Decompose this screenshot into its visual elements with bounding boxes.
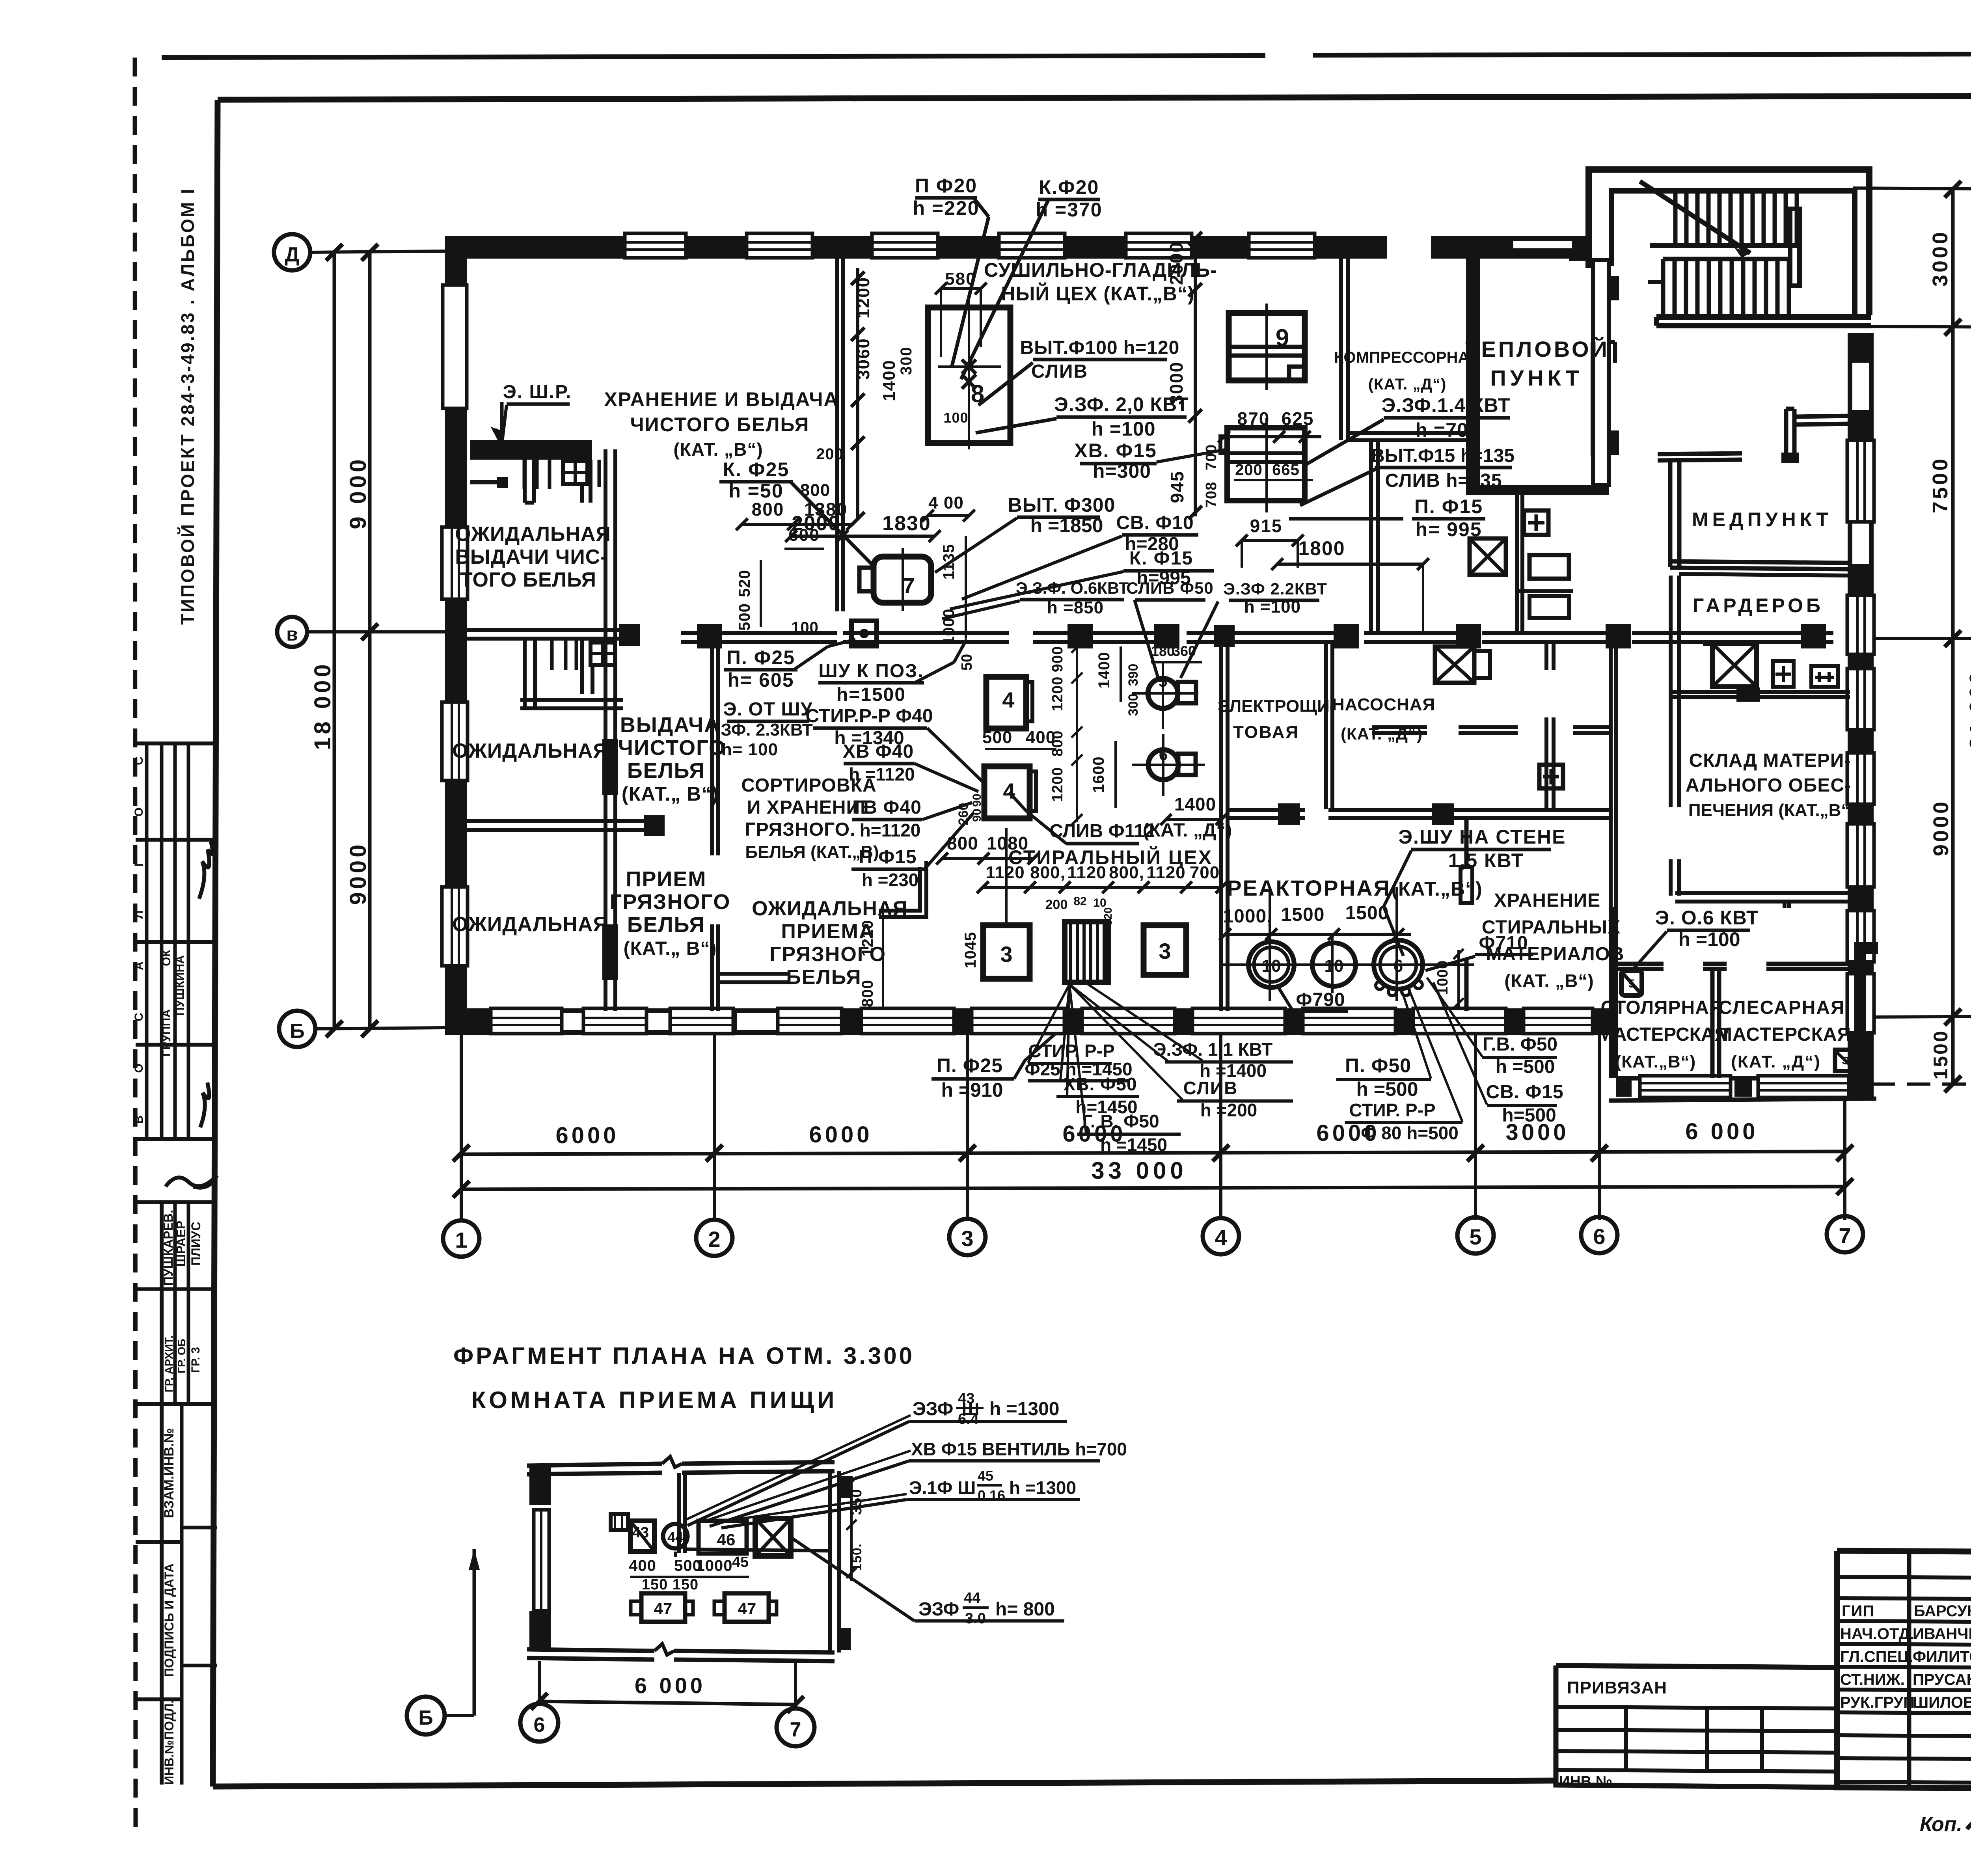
axis circle В left small xyxy=(277,617,307,647)
svg-text:1400: 1400 xyxy=(1174,794,1216,814)
svg-text:МЕДПУНКТ: МЕДПУНКТ xyxy=(1692,509,1832,531)
svg-text:1120: 1120 xyxy=(1146,863,1185,882)
svg-text:6 000: 6 000 xyxy=(635,1673,706,1698)
fragment1 axis circle 6 xyxy=(520,1704,558,1742)
svg-text:ХРАНЕНИЕ И ВЫДАЧА: ХРАНЕНИЕ И ВЫДАЧА xyxy=(604,388,838,410)
stair block inner wall lines xyxy=(1611,191,1855,315)
svg-text:6: 6 xyxy=(1393,956,1403,976)
svg-text:21 000: 21 000 xyxy=(1965,670,1971,749)
svg-text:h= 995: h= 995 xyxy=(1415,518,1482,540)
svg-text:ПУШКИНА: ПУШКИНА xyxy=(173,955,186,1016)
svg-text:1120: 1120 xyxy=(985,863,1025,882)
svg-text:h =910: h =910 xyxy=(941,1079,1003,1101)
svg-text:ЭЗФ: ЭЗФ xyxy=(918,1599,959,1620)
heat point right inner wall xyxy=(1593,260,1609,485)
svg-text:ВЫДАЧИ ЧИС-: ВЫДАЧИ ЧИС- xyxy=(455,546,607,568)
svg-text:П Ф20: П Ф20 xyxy=(915,175,977,197)
svg-text:h =500: h =500 xyxy=(1356,1078,1418,1100)
svg-text:800: 800 xyxy=(800,481,830,500)
svg-text:6 000: 6 000 xyxy=(1685,1119,1758,1144)
svg-text:1210: 1210 xyxy=(859,920,876,957)
svg-text:СТИР. Р-Р: СТИР. Р-Р xyxy=(1028,1041,1114,1061)
vestibule wall stubs upper xyxy=(523,460,527,503)
machine 9 drying unit xyxy=(1229,313,1305,380)
svg-text:Л: Л xyxy=(132,910,145,918)
svg-text:708: 708 xyxy=(1203,482,1220,508)
svg-text:(КАТ.„ В“): (КАТ.„ В“) xyxy=(622,783,719,805)
fragment1 top wall xyxy=(527,1464,662,1466)
svg-text:6: 6 xyxy=(534,1714,545,1736)
reactor axis line xyxy=(1223,963,1457,966)
svg-text:1380: 1380 xyxy=(804,499,848,520)
svg-text:ГРЯЗНОГО: ГРЯЗНОГО xyxy=(610,890,731,914)
svg-text:5: 5 xyxy=(1628,977,1635,990)
svg-text:700: 700 xyxy=(1190,863,1220,882)
svg-text:П. Ф15: П. Ф15 xyxy=(1414,496,1483,518)
workshops bottom wall windows xyxy=(1640,1076,1731,1097)
exterior left wall band xyxy=(445,236,467,1032)
heat point bottom wall xyxy=(1466,485,1609,495)
machine 9 centerline xyxy=(1265,304,1268,390)
svg-text:9 000: 9 000 xyxy=(345,456,371,529)
axis circle Б left xyxy=(279,1011,315,1047)
ironing machine below 9 xyxy=(1227,428,1305,501)
svg-text:Э.ЗФ 2.2КВТ: Э.ЗФ 2.2КВТ xyxy=(1223,579,1327,598)
svg-text:47: 47 xyxy=(738,1599,756,1618)
axis circle 2 xyxy=(696,1220,732,1256)
svg-text:1830: 1830 xyxy=(882,512,931,535)
svg-text:НАЧ.ОТД.: НАЧ.ОТД. xyxy=(1840,1625,1914,1643)
left wall windows xyxy=(442,527,468,599)
svg-text:ИНВ.№: ИНВ.№ xyxy=(1559,1774,1612,1790)
svg-text:7: 7 xyxy=(790,1718,801,1741)
svg-text:3000: 3000 xyxy=(1928,230,1952,287)
svg-text:300: 300 xyxy=(898,347,915,375)
central washing machine with hoses xyxy=(1065,922,1108,982)
left column signatures row xyxy=(166,1176,217,1188)
svg-text:БЕЛЬЯ: БЕЛЬЯ xyxy=(627,913,705,937)
привязан box outline xyxy=(1556,1665,1837,1787)
svg-text:СЛЕСАРНАЯ: СЛЕСАРНАЯ xyxy=(1718,997,1845,1018)
привязан grid lines xyxy=(1556,1707,1837,1708)
dim 915 under ironing machine xyxy=(1242,539,1298,542)
svg-text:ВЗАМ.ИНВ.№: ВЗАМ.ИНВ.№ xyxy=(162,1428,177,1518)
washer extractor 6 xyxy=(1148,750,1178,780)
svg-text:h =1300: h =1300 xyxy=(989,1399,1059,1420)
svg-text:КОМПРЕССОРНАЯ: КОМПРЕССОРНАЯ xyxy=(1334,349,1481,366)
svg-text:О: О xyxy=(132,1064,145,1073)
reactor dim row 1000 1500 1500 xyxy=(1225,933,1411,936)
svg-text:ПЕЧЕНИЯ (КАТ.„В“): ПЕЧЕНИЯ (КАТ.„В“) xyxy=(1688,801,1855,820)
storage of washing materials walls xyxy=(1464,818,1469,867)
top wall of heat point block xyxy=(1431,236,1587,259)
svg-text:7: 7 xyxy=(902,573,915,598)
svg-text:СЛИВ Ф112: СЛИВ Ф112 xyxy=(1049,821,1155,842)
dim 800 1380 600 row above machine 7 xyxy=(742,523,852,526)
svg-text:ВЫТ.Ф15 h=135: ВЫТ.Ф15 h=135 xyxy=(1371,445,1515,466)
svg-text:h= 605: h= 605 xyxy=(727,669,794,691)
svg-text:90: 90 xyxy=(971,809,984,822)
svg-text:90: 90 xyxy=(971,794,984,807)
svg-text:(КАТ.„В“): (КАТ.„В“) xyxy=(1391,878,1482,900)
svg-text:ГИП: ГИП xyxy=(1842,1602,1874,1620)
svg-text:4: 4 xyxy=(1003,779,1015,803)
leader fan from central washing machine xyxy=(1028,984,1069,1063)
title block names table vertical lines xyxy=(1907,1551,1911,1787)
dim 2000 1830 row xyxy=(791,535,935,538)
svg-text:МАСТЕРСКАЯ: МАСТЕРСКАЯ xyxy=(1597,1024,1728,1045)
svg-text:ГР. 3: ГР. 3 xyxy=(189,1347,202,1373)
corridor door jamb blobs xyxy=(697,624,722,648)
svg-text:100: 100 xyxy=(943,410,968,426)
top wall windows xyxy=(625,233,686,258)
svg-text:4: 4 xyxy=(1002,687,1014,712)
heat point corridor shaft wall xyxy=(1515,495,1519,632)
svg-text:500: 500 xyxy=(982,728,1012,747)
heat point plus boxes xyxy=(1524,510,1548,535)
svg-text:ПРИВЯЗАН: ПРИВЯЗАН xyxy=(1567,1678,1667,1697)
svg-text:ТИПОВОЙ ПРОЕКТ 284-3-49.83 . А: ТИПОВОЙ ПРОЕКТ 284-3-49.83 . АЛЬБОМ I xyxy=(177,187,198,625)
svg-text:ХВ. Ф15: ХВ. Ф15 xyxy=(1074,440,1157,462)
svg-text:Э.ЗФ. 1.1 КВТ: Э.ЗФ. 1.1 КВТ xyxy=(1153,1039,1272,1060)
svg-text:h =1300: h =1300 xyxy=(1009,1477,1076,1498)
svg-text:665: 665 xyxy=(1272,461,1300,479)
svg-text:ИНВ.№ПОДЛ.: ИНВ.№ПОДЛ. xyxy=(162,1700,176,1785)
svg-text:h =220: h =220 xyxy=(913,197,979,219)
svg-text:10: 10 xyxy=(1325,956,1344,976)
svg-text:1120: 1120 xyxy=(1067,863,1106,882)
dim 1800 under compressor area xyxy=(1277,563,1423,566)
stair lower flight treads xyxy=(1663,257,1790,261)
svg-text:СЛИВ h=135: СЛИВ h=135 xyxy=(1385,470,1502,491)
left wall hollow segment xyxy=(443,285,467,408)
svg-text:580: 580 xyxy=(945,269,976,289)
svg-text:6: 6 xyxy=(1593,1224,1605,1249)
svg-text:ЧИСТОГО: ЧИСТОГО xyxy=(618,736,726,760)
svg-text:1,5 КВТ: 1,5 КВТ xyxy=(1448,850,1524,872)
waiting room 1 bottom wall xyxy=(467,628,640,632)
wardrobe cross box xyxy=(1712,644,1757,687)
svg-text:47: 47 xyxy=(654,1599,673,1618)
svg-text:Г.В. Ф50: Г.В. Ф50 xyxy=(1483,1034,1557,1055)
svg-text:h=1120: h=1120 xyxy=(860,820,921,840)
svg-text:Э. ОТ ШУ: Э. ОТ ШУ xyxy=(723,699,813,720)
fragment1 equipment 44 circle xyxy=(663,1524,687,1548)
svg-text:700: 700 xyxy=(1203,444,1220,470)
svg-text:А: А xyxy=(132,961,145,970)
heat point lower shelf xyxy=(1516,589,1573,593)
compressor room bottom wall double line xyxy=(1348,431,1466,435)
svg-text:43: 43 xyxy=(632,1524,649,1541)
svg-text:600: 600 xyxy=(788,525,820,545)
svg-text:КОМНАТА ПРИЕМА ПИЩИ: КОМНАТА ПРИЕМА ПИЩИ xyxy=(471,1387,838,1413)
stair block outer walls xyxy=(1589,170,1869,315)
svg-text:ВЫДАЧА: ВЫДАЧА xyxy=(620,713,720,737)
svg-text:6000: 6000 xyxy=(809,1122,872,1148)
wall washing hall east xyxy=(1219,643,1223,1011)
svg-text:К.Ф20: К.Ф20 xyxy=(1039,176,1099,198)
svg-text:7500: 7500 xyxy=(1928,456,1952,513)
svg-text:СВ. Ф10: СВ. Ф10 xyxy=(1116,512,1194,533)
fragment1 left wall upper pier xyxy=(529,1466,551,1505)
svg-text:3000: 3000 xyxy=(1166,361,1187,405)
axis circle 7 xyxy=(1827,1216,1863,1252)
svg-text:(КАТ.„ В“): (КАТ.„ В“) xyxy=(624,938,717,959)
axis circle 3 xyxy=(949,1219,985,1255)
svg-text:ПРИЕМ: ПРИЕМ xyxy=(626,867,707,891)
svg-text:180: 180 xyxy=(1151,643,1175,659)
svg-text:h =1850: h =1850 xyxy=(1030,514,1103,537)
svg-text:200: 200 xyxy=(816,445,844,463)
svg-text:ПУШКАРЕВ.: ПУШКАРЕВ. xyxy=(161,1210,175,1285)
axis circle 6 xyxy=(1581,1217,1617,1253)
svg-text:ОЖИДАЛЬНАЯ: ОЖИДАЛЬНАЯ xyxy=(752,897,908,920)
axis circle 5 xyxy=(1457,1217,1494,1254)
svg-text:МАСТЕРСКАЯ: МАСТЕРСКАЯ xyxy=(1716,1024,1851,1045)
fragment1 left wall lower pier xyxy=(529,1611,551,1649)
svg-text:Коп.: Коп. xyxy=(1920,1813,1962,1836)
heat point cross box xyxy=(1470,538,1506,575)
svg-text:1500: 1500 xyxy=(1281,904,1325,925)
right vertical dimension line segments xyxy=(1951,189,1955,1084)
svg-text:ОЖИДАЛЬНАЯ: ОЖИДАЛЬНАЯ xyxy=(452,913,608,936)
svg-text:520: 520 xyxy=(736,570,753,597)
fragment1 bottom wall xyxy=(527,1649,654,1651)
svg-text:(КАТ. „В“): (КАТ. „В“) xyxy=(1504,971,1594,991)
left column signature table grid xyxy=(136,741,217,745)
svg-text:ГАРДЕРОБ: ГАРДЕРОБ xyxy=(1693,594,1824,617)
svg-text:625: 625 xyxy=(1282,408,1314,429)
svg-text:РУК.ГРУП: РУК.ГРУП xyxy=(1840,1694,1915,1711)
wardrobe room bottom wall xyxy=(1670,690,1850,694)
svg-text:3060: 3060 xyxy=(854,338,873,380)
svg-text:БАРСУКОВ: БАРСУКОВ xyxy=(1914,1602,1971,1620)
svg-text:1800: 1800 xyxy=(1298,537,1345,559)
svg-text:3: 3 xyxy=(1000,942,1012,967)
sheet outer left edge line xyxy=(135,58,136,1829)
svg-text:ШИЛОВА: ШИЛОВА xyxy=(1913,1694,1971,1711)
svg-text:ОЖИДАЛЬНАЯ: ОЖИДАЛЬНАЯ xyxy=(452,740,608,762)
heat point wall pilasters xyxy=(1609,276,1619,300)
svg-text:h =1120: h =1120 xyxy=(849,764,915,784)
washing machine 4 upper xyxy=(986,677,1026,728)
dim vertical 2000 3000 945 at machine 9 xyxy=(1194,237,1197,516)
svg-text:ГР. ОБ: ГР. ОБ xyxy=(175,1339,188,1373)
exterior top wall band xyxy=(445,236,1387,259)
svg-text:1000: 1000 xyxy=(696,1557,733,1574)
partition wall storage/drying xyxy=(835,259,839,611)
svg-text:1400: 1400 xyxy=(879,360,899,401)
svg-text:33 000: 33 000 xyxy=(1091,1157,1187,1184)
svg-text:45: 45 xyxy=(732,1554,749,1570)
svg-text:50: 50 xyxy=(959,654,975,671)
svg-text:1000: 1000 xyxy=(940,609,958,645)
svg-text:6000: 6000 xyxy=(555,1123,619,1148)
fragment1 interior wall vertical xyxy=(677,1473,681,1553)
svg-text:Г. В. Ф50: Г. В. Ф50 xyxy=(1082,1111,1159,1131)
svg-text:200: 200 xyxy=(1045,897,1068,912)
fragment1 axis 6 line xyxy=(538,1661,541,1704)
svg-text:Э.З.Ф. О.6КВТ: Э.З.Ф. О.6КВТ xyxy=(1016,579,1129,597)
svg-text:ФРАГМЕНТ ПЛАНА НА ОТМ. 3.300: ФРАГМЕНТ ПЛАНА НА ОТМ. 3.300 xyxy=(453,1343,915,1369)
svg-text:h=500: h=500 xyxy=(1502,1105,1556,1126)
svg-text:К. Ф15: К. Ф15 xyxy=(1129,548,1193,569)
svg-text:9000: 9000 xyxy=(345,841,371,905)
reactor small nozzles xyxy=(1376,982,1384,989)
svg-text:1: 1 xyxy=(455,1228,467,1252)
stair upper flight break diagonal xyxy=(1640,181,1750,253)
washing machine 3 right xyxy=(1144,925,1186,975)
svg-text:О: О xyxy=(132,807,145,816)
svg-text:ПОДПИСЬ И ДАТА: ПОДПИСЬ И ДАТА xyxy=(162,1563,176,1677)
medpoint bottom wall xyxy=(1670,561,1850,563)
fragment1 interior counter line xyxy=(685,1549,830,1551)
fragment1 right dim column 350 150 xyxy=(850,1476,853,1581)
svg-text:1045: 1045 xyxy=(962,932,979,969)
electrical cabinet workshop right xyxy=(1835,1050,1856,1071)
wall below clean linen storage xyxy=(470,440,592,460)
leader fan from reactor tank to labels xyxy=(1401,989,1431,1079)
svg-text:ЗФ. 2.3КВТ: ЗФ. 2.3КВТ xyxy=(721,720,813,740)
fragment1 tables 47 xyxy=(641,1593,685,1622)
heat point left wall xyxy=(1466,259,1480,495)
control cabinet ShchU in washing hall xyxy=(851,621,877,646)
svg-text:1135: 1135 xyxy=(940,544,958,580)
warehouse room walls xyxy=(1675,891,1853,895)
svg-text:h =100: h =100 xyxy=(1091,418,1155,440)
svg-text:800: 800 xyxy=(947,833,978,853)
svg-text:h =200: h =200 xyxy=(1200,1100,1257,1120)
small fixture ticks xyxy=(550,639,554,670)
svg-text:400: 400 xyxy=(629,1557,656,1574)
svg-text:7: 7 xyxy=(1839,1223,1851,1248)
svg-text:в: в xyxy=(286,624,298,645)
wall switchboard/pump divider xyxy=(1324,643,1328,809)
svg-text:СЛИВ: СЛИВ xyxy=(1183,1078,1238,1098)
exterior bottom wall band lines xyxy=(445,1008,1616,1013)
pump room crossed pump box xyxy=(1435,646,1474,683)
svg-text:П. Ф25: П. Ф25 xyxy=(937,1054,1003,1077)
reactor vertical axes xyxy=(1269,887,1271,1001)
washer extractor 5 xyxy=(1148,678,1178,708)
dirty linen room east wall xyxy=(710,632,714,855)
axis circle Д left xyxy=(274,234,310,270)
svg-text:Д: Д xyxy=(285,243,299,266)
svg-text:200: 200 xyxy=(1235,461,1263,479)
wardrobe lockers xyxy=(1773,661,1794,687)
dim 870 625 over ironing machine xyxy=(1224,435,1321,438)
title block names table row lines xyxy=(1837,1577,1971,1578)
svg-text:Ф710: Ф710 xyxy=(1479,933,1528,954)
compressor room left wall double line xyxy=(1339,259,1343,440)
left column rotated names row xyxy=(136,1200,217,1204)
svg-text:h =700: h =700 xyxy=(1415,419,1479,441)
fragment1 equipment 43 box xyxy=(630,1521,654,1552)
svg-text:ГР. АРХИТ.: ГР. АРХИТ. xyxy=(163,1336,175,1392)
drawing frame bottom line xyxy=(213,1781,1556,1787)
svg-text:ХВ Ф40: ХВ Ф40 xyxy=(843,741,914,762)
svg-text:4: 4 xyxy=(1215,1225,1227,1250)
pump unit with plus xyxy=(1539,765,1563,788)
bottom axis extension lines xyxy=(460,1032,463,1220)
svg-text:800: 800 xyxy=(752,499,784,520)
svg-text:Э.ШУ НА СТЕНЕ: Э.ШУ НА СТЕНЕ xyxy=(1398,826,1566,848)
svg-text:ХВ Ф15 ВЕНТИЛЬ h=700: ХВ Ф15 ВЕНТИЛЬ h=700 xyxy=(911,1439,1127,1459)
svg-text:С: С xyxy=(132,756,145,765)
bottom wall corner piers xyxy=(445,1011,491,1032)
svg-text:П. Ф50: П. Ф50 xyxy=(1345,1054,1411,1077)
svg-text:РЕАКТОРНАЯ: РЕАКТОРНАЯ xyxy=(1227,876,1391,900)
svg-text:900: 900 xyxy=(1049,646,1066,672)
svg-text:9000: 9000 xyxy=(1929,799,1953,856)
svg-text:С: С xyxy=(132,1013,145,1021)
right wing west wall xyxy=(1669,576,1673,807)
corridor walls below stair block xyxy=(1591,342,1595,456)
wc fixture box xyxy=(591,643,615,665)
svg-text:500: 500 xyxy=(736,603,753,631)
reactor tank 10 left xyxy=(1248,942,1294,987)
svg-text:СТИР. Р-Р: СТИР. Р-Р xyxy=(1349,1100,1435,1120)
dim 1210 800 column left of machine 3 xyxy=(882,903,884,1009)
workshops center divider wall xyxy=(1710,969,1715,1078)
reactor room top wall xyxy=(1228,808,1305,812)
svg-text:ИВАНЧИКОВ: ИВАНЧИКОВ xyxy=(1913,1625,1971,1643)
svg-text:800,: 800, xyxy=(1030,863,1066,882)
svg-text:h =230: h =230 xyxy=(862,870,919,890)
axis circle 4 xyxy=(1203,1218,1239,1254)
svg-text:БЕЛЬЯ: БЕЛЬЯ xyxy=(786,966,861,989)
svg-text:150.: 150. xyxy=(850,1543,864,1571)
svg-text:h= 800: h= 800 xyxy=(995,1599,1055,1620)
fragment1 axis Б arrow line xyxy=(473,1549,476,1716)
leader fan from washing machines to lower labels xyxy=(1005,828,1008,925)
svg-text:h =100: h =100 xyxy=(1244,597,1301,617)
svg-text:3: 3 xyxy=(961,1226,973,1251)
svg-text:Г: Г xyxy=(132,860,145,866)
left column block ПОДПИСЬ И ДАТА xyxy=(136,1540,182,1544)
left column block ВЗАМ ИНВ № xyxy=(136,1402,217,1406)
fragment1 small hatch box xyxy=(611,1514,628,1530)
svg-text:ГЛ.СПЕЦ.: ГЛ.СПЕЦ. xyxy=(1840,1648,1913,1665)
svg-text:П. Ф25: П. Ф25 xyxy=(727,646,795,669)
top-left room electrical riser flag xyxy=(500,402,504,445)
svg-text:46: 46 xyxy=(717,1530,736,1549)
svg-text:820: 820 xyxy=(1102,907,1114,926)
svg-text:Э. О.6 КВТ: Э. О.6 КВТ xyxy=(1655,907,1759,929)
workshops left wall xyxy=(1609,907,1616,1078)
left vertical dimension line 9000/9000 xyxy=(368,252,372,1029)
svg-text:Ф 80 h=500: Ф 80 h=500 xyxy=(1361,1123,1459,1143)
axis circle 1 xyxy=(443,1220,479,1257)
svg-text:2000: 2000 xyxy=(1166,242,1187,285)
drawing frame top line xyxy=(218,95,1971,100)
svg-text:44: 44 xyxy=(667,1529,683,1545)
svg-text:360: 360 xyxy=(1172,643,1196,659)
sheet outer top edge line xyxy=(162,56,1265,58)
right wall windows xyxy=(1847,440,1874,522)
svg-text:ТЕПЛОВОЙ: ТЕПЛОВОЙ xyxy=(1465,337,1610,361)
svg-text:ОК: ОК xyxy=(160,949,173,966)
corridor upper wall segments xyxy=(681,631,837,635)
washing machine 3 left xyxy=(983,925,1030,979)
svg-text:h=1500: h=1500 xyxy=(836,684,906,705)
svg-text:1400: 1400 xyxy=(1095,652,1113,689)
dim vertical line machine 8 column xyxy=(856,268,859,520)
bottom wall windows xyxy=(491,1008,562,1034)
svg-text:СТ.НИЖ.: СТ.НИЖ. xyxy=(1840,1671,1905,1688)
svg-text:К. Ф25: К. Ф25 xyxy=(723,458,790,481)
svg-text:СЛИВ Ф50: СЛИВ Ф50 xyxy=(1126,579,1214,597)
